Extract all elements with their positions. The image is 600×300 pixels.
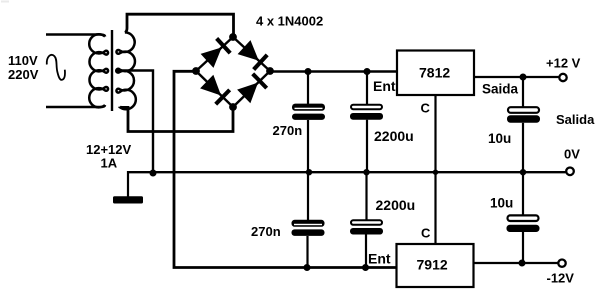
- svg-text:270n: 270n: [251, 224, 281, 239]
- diode D2: [237, 40, 268, 71]
- transformer secondary winding: [116, 32, 136, 109]
- capacitor C3 10u upper: [507, 107, 540, 123]
- svg-text:Ent: Ent: [373, 78, 396, 94]
- svg-text:110V: 110V: [8, 53, 38, 68]
- svg-text:Salida: Salida: [556, 112, 595, 127]
- scan smudge top-left: [1, 1, 9, 3]
- node 270n lower rail: [304, 264, 311, 271]
- capacitor C6 10u lower: [507, 215, 540, 232]
- regulator U1 7812: [397, 51, 474, 96]
- capacitor C1 270n upper: [292, 104, 325, 120]
- ground symbol: [113, 196, 143, 203]
- wire 270n upper top lead: [307, 72, 309, 105]
- wire secondary bottom to bridge bottom: [120, 107, 234, 132]
- node 2200u lower 0V: [363, 169, 369, 175]
- svg-text:7812: 7812: [419, 65, 450, 81]
- svg-text:2200u: 2200u: [374, 128, 414, 144]
- wire ground stub: [127, 171, 129, 197]
- svg-text:+12 V: +12 V: [546, 56, 581, 71]
- svg-text:2200u: 2200u: [376, 197, 416, 213]
- capacitor C5 2200u lower: [350, 220, 383, 234]
- capacitor C4 270n lower: [292, 220, 325, 236]
- node regulators ground 0V: [433, 170, 438, 175]
- node bridge top: [229, 33, 237, 41]
- wire bridge arm left-bottom: [196, 71, 233, 107]
- node 270n top: [305, 68, 312, 75]
- transformer core: [111, 30, 113, 111]
- diode D3: [200, 74, 231, 105]
- wire primary top: [46, 35, 105, 37]
- wire positive rail: [268, 70, 397, 72]
- wire 10u upper top lead: [522, 77, 524, 107]
- wire 10u lower bottom lead: [522, 232, 524, 263]
- wire primary bottom: [46, 105, 105, 107]
- diode D1: [200, 37, 231, 68]
- node bridge left: [192, 67, 200, 75]
- wire 2200u lower bottom lead: [365, 235, 367, 268]
- wire bridge arm bottom-right: [233, 71, 270, 107]
- wire bridge negative to lower rail: [174, 71, 397, 267]
- terminal 0V: [566, 168, 574, 176]
- node -12V junction: [519, 260, 526, 267]
- wire 0V rail: [128, 171, 566, 173]
- svg-text:Ent: Ent: [368, 251, 391, 267]
- svg-text:0V: 0V: [564, 147, 580, 162]
- node bridge bottom: [229, 103, 237, 111]
- svg-text:C: C: [421, 226, 431, 241]
- wire 270n lower top lead: [307, 172, 309, 220]
- wire center tap to 0V rail: [117, 71, 153, 173]
- wire 270n upper bottom lead: [307, 120, 309, 172]
- terminal -12V: [558, 260, 565, 267]
- wire 7912 output: [474, 262, 559, 264]
- svg-text:10u: 10u: [490, 196, 513, 211]
- node 10u 0V: [520, 169, 526, 175]
- wire bridge arm left-top: [196, 37, 233, 71]
- svg-text:4 x 1N4002: 4 x 1N4002: [256, 14, 323, 29]
- svg-text:-12V: -12V: [547, 271, 575, 286]
- svg-text:C: C: [421, 101, 431, 116]
- capacitor C2 2200u upper: [350, 105, 383, 120]
- AC source sine symbol: [47, 55, 65, 80]
- wire 7812 output: [474, 76, 559, 78]
- node +12V junction: [520, 74, 527, 81]
- wire 10u upper bottom lead: [522, 123, 524, 172]
- svg-text:220V: 220V: [8, 67, 39, 82]
- svg-text:7912: 7912: [417, 257, 448, 273]
- terminal +12V: [559, 74, 566, 81]
- svg-text:10u: 10u: [488, 131, 511, 146]
- node bridge right: [266, 67, 274, 75]
- regulator U2 7912: [397, 244, 474, 287]
- diode D4: [237, 72, 268, 103]
- wire bridge arm top-right: [233, 37, 270, 71]
- node 270n lower 0V: [306, 169, 312, 175]
- wire 2200u lower top lead: [365, 172, 367, 220]
- wire 10u lower top lead: [522, 172, 524, 215]
- transformer T1 primary winding: [89, 34, 108, 107]
- wire 2200u upper bottom lead: [366, 120, 368, 173]
- node center tap 0V: [150, 170, 157, 177]
- node 2200u top: [364, 68, 371, 75]
- wire 270n lower bottom lead: [306, 236, 308, 268]
- wire 2200u upper top lead: [366, 72, 368, 106]
- svg-text:Saida: Saida: [482, 82, 519, 97]
- svg-text:1A: 1A: [101, 156, 118, 171]
- svg-text:270n: 270n: [273, 123, 303, 138]
- wire 7812 ground pin: [434, 95, 436, 244]
- wire secondary top to bridge top: [125, 14, 234, 37]
- node 2200u lower rail: [362, 264, 369, 271]
